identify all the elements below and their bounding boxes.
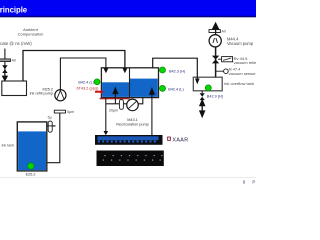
- sensor dot B42.4 right: [160, 85, 166, 91]
- label N 47.4 vacuum sensor: [229, 67, 257, 76]
- filter 5um (horizontal): [54, 110, 74, 114]
- svg-text:Principle: Principle: [0, 5, 28, 14]
- svg-text:vacuum sensor: vacuum sensor: [229, 71, 256, 76]
- svg-text:Compensation: Compensation: [18, 32, 44, 37]
- pipe pump to filter: [215, 30, 217, 35]
- arrow into printhead: [104, 131, 109, 135]
- valve V44 (vacuum): [212, 56, 219, 64]
- wire: refill line pump to header tank: [60, 58, 106, 90]
- filter 20um (vertical capsule): [109, 100, 123, 113]
- return line printhead to header tank: [151, 98, 153, 136]
- air filter (left): [0, 59, 17, 63]
- svg-text:5µm: 5µm: [67, 110, 74, 114]
- svg-text:Recirculation pump: Recirculation pump: [116, 122, 149, 126]
- sensor dot B42.3 (H): [160, 67, 166, 73]
- vent filter 5u (vertical capsule): [47, 115, 56, 132]
- pump M43.1 (recirculation pump): [127, 99, 139, 111]
- drain valve B42.9: [200, 91, 205, 100]
- label M44.4 Vacuum pump: [227, 37, 254, 46]
- svg-text:B42.9 [H]: B42.9 [H]: [207, 94, 223, 98]
- red arrow marker 6T43.2: [95, 90, 104, 94]
- label M43.1 Recirculation pump: [116, 118, 149, 126]
- svg-text:ink tank: ink tank: [2, 144, 15, 148]
- pipe filter to pump: [123, 103, 127, 105]
- svg-text:B42.4 (L): B42.4 (L): [78, 80, 94, 84]
- level sensor dot (bulk tank): [28, 163, 34, 169]
- recirculation pipe: [106, 103, 120, 105]
- print sample bar: [97, 151, 164, 167]
- title banner: [0, 0, 256, 17]
- arrow into trap box: [3, 73, 8, 81]
- vacuum sensor N47.4: [216, 69, 229, 74]
- wire: ambient line to header tank: [23, 51, 125, 82]
- pump M25.2 (ink refill pump): [55, 90, 66, 101]
- svg-text:B42.3 (H): B42.3 (H): [169, 69, 186, 73]
- svg-text:E26.2: E26.2: [26, 172, 36, 176]
- header tank: [101, 68, 158, 98]
- arrow into overflow tank: [195, 79, 200, 85]
- sensor dot overflow tank: [205, 85, 211, 91]
- wire: header tank to overflow tank: [153, 58, 198, 79]
- arrow up in right compartment: [150, 89, 155, 98]
- air filter (vacuum exhaust): [209, 29, 227, 33]
- valve V1 (air inlet): [2, 65, 7, 73]
- label Rv 44.5 vacuum relief: [234, 56, 261, 65]
- svg-text:5µ: 5µ: [48, 115, 52, 119]
- svg-text:ink refill pump: ink refill pump: [30, 92, 53, 96]
- pipe pump to header tank right: [138, 98, 143, 104]
- heater line 6T43.2 under left compartment: [100, 98, 130, 100]
- footer page number: [243, 179, 256, 184]
- pump M44.4 (vacuum pump): [209, 35, 221, 47]
- label M25.2 ink refill pump: [30, 87, 53, 95]
- svg-text:vacuum relief v: vacuum relief v: [234, 60, 256, 65]
- XAAR logo: [167, 137, 188, 144]
- arrow up in left compartment: [113, 88, 118, 97]
- supply line to printhead: [105, 98, 107, 132]
- riser into left compartment: [114, 96, 116, 104]
- trap box: [2, 81, 27, 96]
- arrow into header tank (refill line): [104, 68, 109, 73]
- printhead bar: [95, 135, 163, 145]
- svg-text:M43.1: M43.1: [127, 118, 138, 122]
- arrow into header tank (ambient line): [123, 68, 128, 73]
- vacuum stack pipe: [215, 46, 217, 77]
- svg-text:20µm: 20µm: [109, 108, 118, 112]
- overflow tank: [193, 77, 222, 91]
- svg-text:XAAR: XAAR: [172, 137, 188, 143]
- svg-text:P: P: [252, 179, 255, 184]
- svg-text:Vacuum pump: Vacuum pump: [227, 41, 254, 46]
- relief valve Rv 44.5 symbol: [218, 57, 233, 62]
- label: Ambient Compensation: [18, 27, 44, 37]
- svg-text:B42.4 (L): B42.4 (L): [168, 87, 184, 91]
- svg-text:dicate @ ns (mW): dicate @ ns (mW): [0, 41, 32, 46]
- wire: suction from bulk tank: [47, 113, 60, 163]
- vent line from bulk tank: [47, 125, 56, 127]
- wire: air inlet pipe: [4, 49, 6, 82]
- svg-text:ink overflow tank: ink overflow tank: [224, 81, 254, 86]
- exhaust arrow up: [213, 23, 219, 29]
- footer rule: [0, 176, 256, 179]
- drain double arrow: [200, 100, 205, 116]
- sensor dot B42.4 left: [94, 79, 100, 85]
- svg-text:6T43.2 (p(s)): 6T43.2 (p(s)): [76, 86, 99, 90]
- bulk ink tank E26.2: [17, 122, 47, 171]
